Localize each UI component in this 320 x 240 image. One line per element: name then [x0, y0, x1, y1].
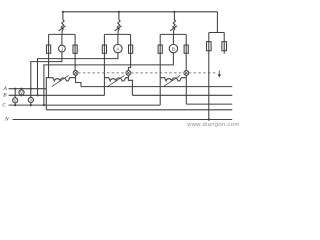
wire group 4 right drop	[223, 33, 225, 54]
wire coil W1 left step down	[46, 78, 48, 110]
wire meter P3 leg to bus	[44, 53, 174, 105]
wire dashed shaft line	[78, 72, 125, 74]
voltmeter PV3	[28, 97, 33, 102]
wire tee bar group 3	[160, 33, 186, 35]
wire bus C	[9, 104, 161, 106]
wire voltage coil VC3 to coil bar	[185, 75, 187, 77]
wire centre branch stub group 3	[172, 34, 174, 44]
wire shaft arrow	[218, 71, 220, 77]
wire slash through fuse FU3	[170, 26, 177, 31]
fuse F4b	[222, 42, 227, 51]
node dot PV2 top on bus A	[14, 88, 16, 90]
wire slash through fuse FU2	[115, 26, 122, 31]
wire coil W2 left leg to bus B end	[103, 78, 105, 96]
voltage coil VC3	[184, 71, 189, 76]
node dot group4 left on bus N	[208, 118, 210, 120]
node dot PV1 bottom	[20, 94, 22, 96]
wire top bus corner drop to group 4	[216, 12, 218, 33]
wire centre branch stub group 2	[117, 34, 119, 44]
wire voltmeter PV3 drop	[30, 89, 32, 105]
svg-text:A: A	[2, 86, 7, 92]
node dot PV1 top	[20, 88, 22, 90]
node dot PV3 bottom on bus C	[30, 104, 32, 106]
wire load line A	[81, 86, 232, 88]
fuse F2a	[102, 45, 106, 53]
wire bus N	[13, 119, 233, 121]
wire centre branch stub group 1	[61, 34, 63, 45]
svg-text:J: J	[61, 47, 63, 52]
node junction dot 1 on top bus	[62, 11, 64, 13]
svg-text:N: N	[4, 116, 9, 122]
svg-text:B: B	[3, 93, 7, 99]
svg-text:B: B	[172, 47, 175, 52]
wire voltage coil VC1 to coil bar	[75, 75, 77, 77]
current coil W3	[160, 78, 186, 81]
fuse FU1 (wavy drop from bus)	[61, 12, 64, 35]
wire right branch group 3	[185, 34, 187, 70]
wire voltmeter PV2 drop A to C	[14, 89, 16, 105]
svg-text:V: V	[29, 98, 32, 103]
wire slash through fuse FU1	[59, 26, 66, 31]
voltage coil VC2	[126, 71, 131, 76]
wire bus A	[9, 88, 47, 90]
fuse F1b	[73, 45, 77, 53]
fuse F1a	[47, 45, 51, 53]
wire tee bar group 2	[104, 33, 130, 35]
wire tee bar group 1	[49, 33, 76, 35]
svg-text:V: V	[14, 98, 17, 103]
wire group 4 left drop to bus N	[208, 33, 210, 120]
voltage coil VC1	[73, 71, 78, 76]
wire right branch group 2	[128, 34, 130, 70]
fuse F2b	[129, 45, 133, 53]
wire coil W2 right step to load line B	[128, 78, 132, 96]
fuse F3b	[184, 45, 188, 53]
wire coil W3 right drop to load line C	[185, 78, 187, 104]
wire top supply bus	[63, 11, 218, 13]
fuse F3a	[158, 45, 162, 53]
meter P3	[169, 44, 177, 52]
meter P2	[114, 44, 122, 52]
wire voltage coil VC2 to coil bar	[127, 75, 129, 77]
fuse F4a	[207, 42, 212, 51]
wire coil W3 left leg to bus C end	[159, 78, 161, 105]
wire left branch group 2	[103, 34, 105, 77]
wire voltmeter PV1 drop	[21, 89, 23, 96]
wire arrow slash through coil W3	[163, 75, 180, 86]
wire long link line	[46, 109, 232, 111]
voltmeter PV1	[19, 90, 24, 95]
node dot P3 leg on bus	[43, 104, 45, 106]
current coil W1	[49, 78, 76, 81]
wire arrow slash through coil W1	[52, 75, 69, 86]
wire left branch group 1	[48, 34, 50, 77]
node dot PV2 bottom on bus C	[14, 104, 16, 106]
fuse FU3 (wavy drop from bus)	[173, 12, 176, 35]
wire coil W1 right step to load line A	[76, 78, 81, 87]
node junction dot 3 on top bus	[173, 11, 175, 13]
current coil W2	[104, 78, 128, 81]
wire left branch group 3	[159, 34, 161, 77]
voltmeter PV2	[13, 98, 18, 103]
wire meter P2 leg to bus	[38, 53, 118, 96]
node dot P2 leg on bus	[36, 94, 38, 96]
wire load line B	[132, 94, 232, 96]
meter P1	[59, 45, 66, 52]
wire meter P1 leg to bus	[31, 52, 62, 89]
wire arrow slash through coil W2	[108, 75, 125, 86]
wire right branch group 1	[74, 34, 76, 70]
fuse FU2 (wavy drop from bus)	[117, 12, 120, 35]
wire bus B	[9, 94, 105, 96]
wire tee bar group 4	[209, 32, 224, 34]
svg-text:www.diangon.com: www.diangon.com	[186, 122, 239, 128]
node dot P1 leg on bus	[30, 88, 32, 90]
wire load line C	[186, 103, 232, 105]
node junction dot 2 on top bus	[118, 11, 120, 13]
